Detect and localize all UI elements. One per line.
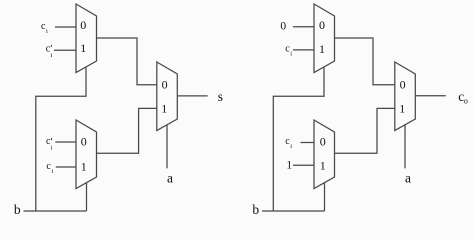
input label c'_i prime (U2): [50, 138, 53, 140]
svg-text:i: i: [46, 28, 48, 35]
wire b bus (right circuit): [262, 210, 325, 212]
wire U2 select to b bus: [86, 183, 88, 211]
svg-text:0: 0: [280, 20, 286, 32]
svg-text:0: 0: [320, 135, 326, 149]
svg-text:a: a: [405, 170, 411, 185]
wire U4 output to U6 pin 0: [335, 38, 395, 85]
mux U4 (top-left 2:1 mux, right circuit): [314, 4, 335, 73]
mux U3 (output 2:1 mux): [157, 62, 178, 131]
wire c'_i to U2 pin 0: [55, 141, 76, 143]
wire U1 select down-around to b bus: [36, 67, 86, 211]
wire U2 output to U3 pin 1: [97, 108, 157, 153]
svg-text:0: 0: [81, 134, 87, 148]
svg-text:1: 1: [399, 101, 405, 115]
mux U1 (top-left 2:1 mux): [76, 4, 97, 73]
svg-text:i: i: [290, 51, 292, 58]
wire c_i to U2 pin 1: [56, 166, 76, 168]
mux U5 (bottom-left 2:1 mux, right circuit): [314, 120, 335, 189]
wire U6 select to a: [404, 125, 406, 168]
svg-text:i: i: [51, 168, 53, 175]
svg-text:0: 0: [80, 18, 86, 32]
svg-text:1: 1: [81, 159, 87, 173]
wire U5 select to b bus: [324, 183, 326, 211]
svg-text:b: b: [14, 202, 21, 217]
wire c_i to U4 pin 1: [293, 49, 314, 51]
wire U6 output c_o: [415, 95, 446, 97]
svg-text:0: 0: [162, 77, 168, 91]
svg-text:i: i: [51, 144, 53, 151]
svg-text:0: 0: [400, 77, 406, 91]
wire constant 0 to U4 pin 0: [293, 26, 314, 28]
input label c'_i prime: [50, 45, 53, 47]
wire U3 select to a: [166, 125, 168, 168]
wire constant 1 to U5 pin 1: [293, 164, 314, 166]
svg-text:0: 0: [319, 18, 325, 32]
svg-text:s: s: [218, 89, 223, 104]
wire U3 output s: [177, 95, 207, 97]
svg-text:a: a: [167, 170, 173, 185]
wire c_i to U1 pin 0: [55, 26, 76, 28]
mux U2 (bottom-left 2:1 mux): [76, 120, 97, 189]
wire U1 output to U3 pin 0: [97, 38, 157, 85]
wire U4 select down-around to b bus: [273, 67, 324, 211]
svg-text:o: o: [464, 97, 468, 106]
wire c'_i to U1 pin 1: [54, 49, 76, 51]
svg-text:b: b: [252, 202, 259, 217]
wire b bus (left circuit): [24, 210, 87, 212]
wire U5 output to U6 pin 1: [335, 108, 395, 153]
svg-text:1: 1: [286, 160, 292, 172]
svg-text:1: 1: [319, 42, 325, 56]
mux U6 (output 2:1 mux, right circuit): [395, 62, 416, 131]
svg-text:i: i: [290, 143, 292, 150]
wire c_i to U5 pin 0: [301, 142, 315, 144]
svg-text:1: 1: [320, 159, 326, 173]
svg-text:1: 1: [161, 101, 167, 115]
svg-text:i: i: [50, 52, 52, 59]
svg-text:1: 1: [80, 41, 86, 55]
